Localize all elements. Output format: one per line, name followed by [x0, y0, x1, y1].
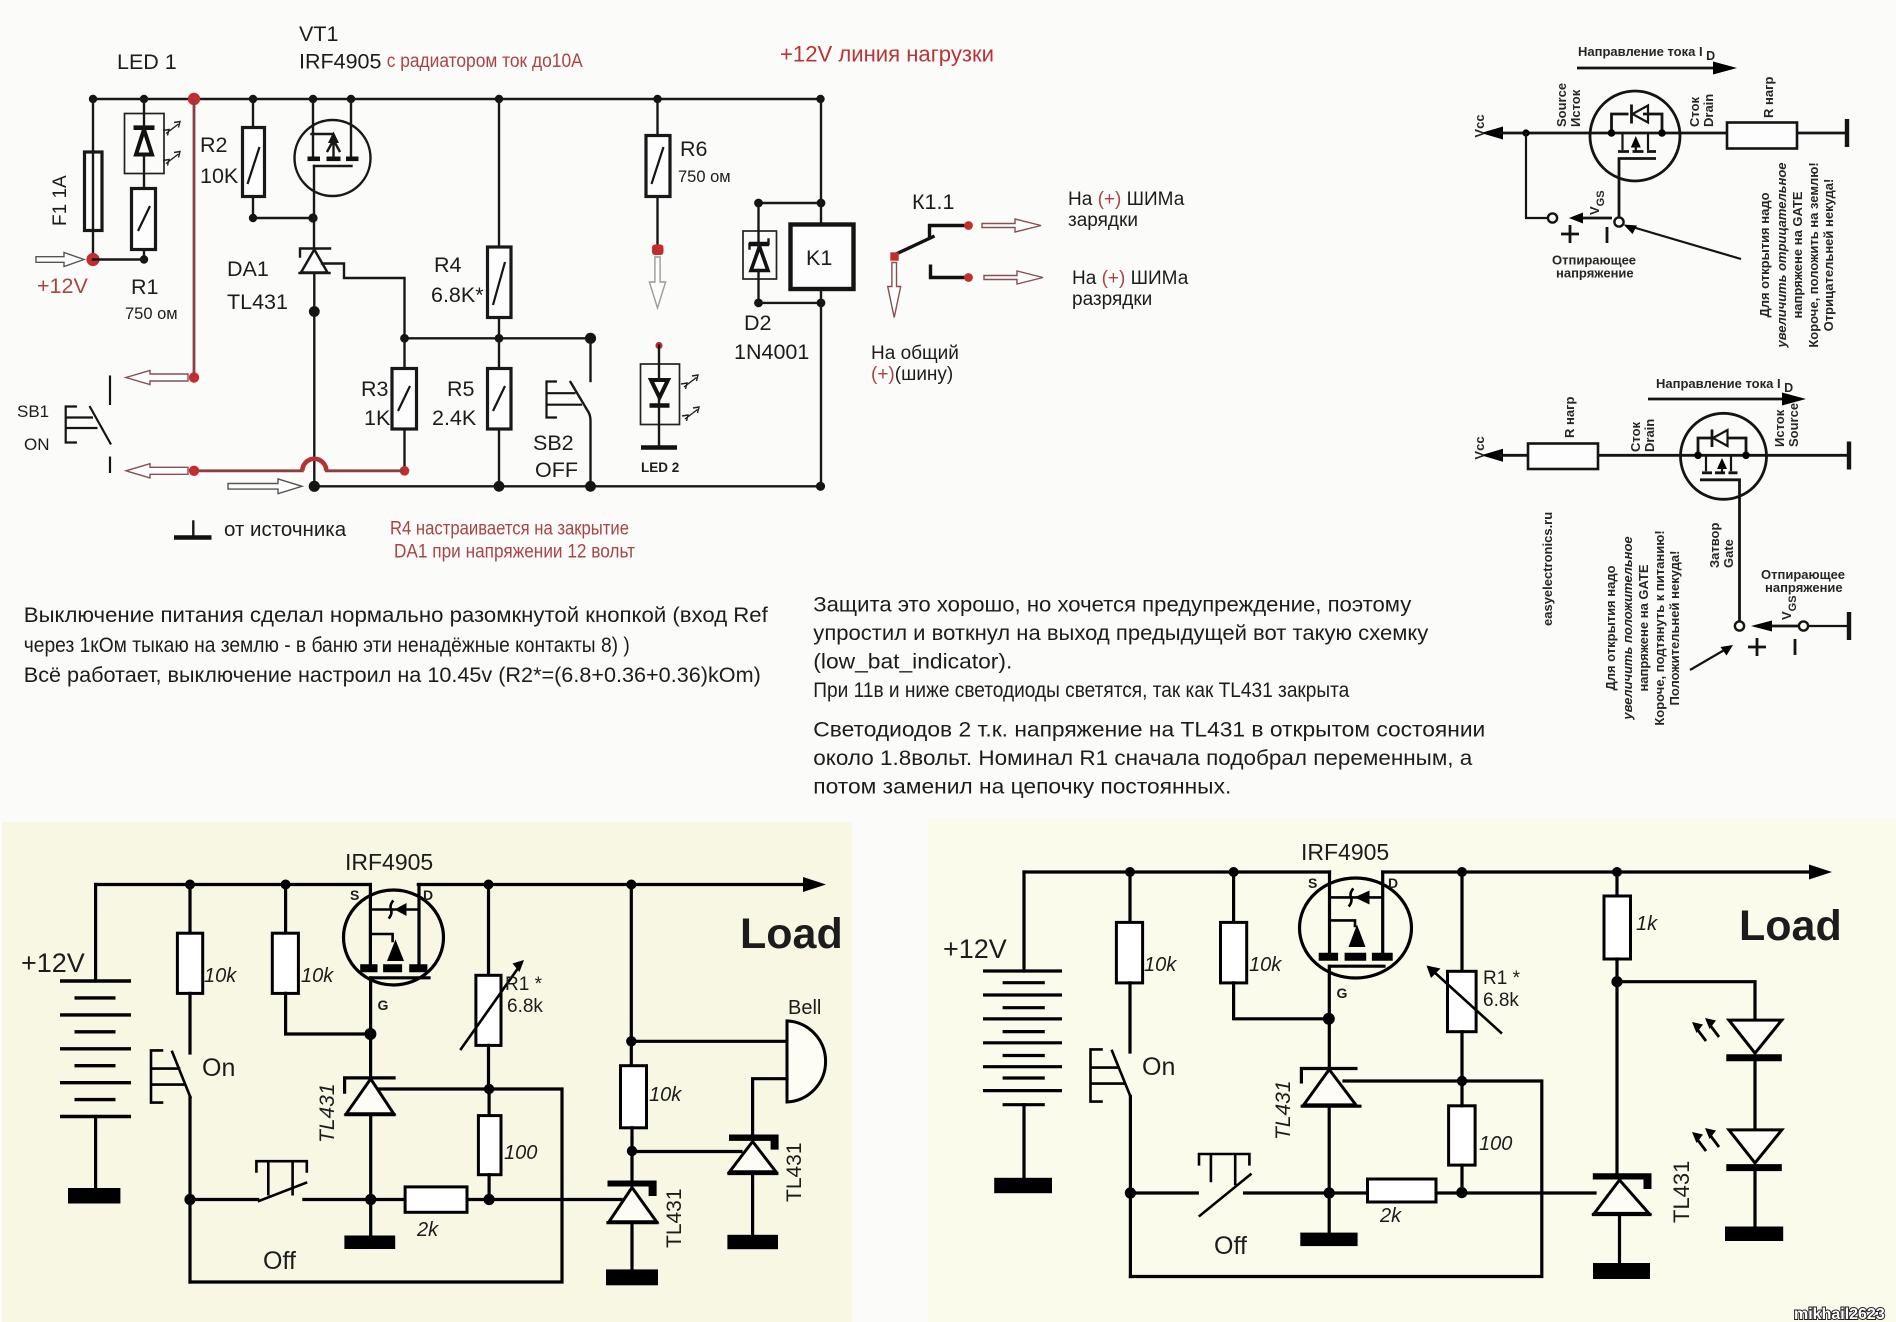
svg-text:+12V: +12V [21, 948, 85, 978]
svg-text:R1: R1 [131, 275, 158, 299]
MOSFET right gate bar [1331, 965, 1384, 968]
gate open node [1614, 217, 1623, 226]
switch On right [1112, 1051, 1130, 1096]
arrow Id direction second [1648, 398, 1785, 401]
SB2 actuator bracket [547, 382, 583, 418]
wire: VT1 gate down to DA1 [313, 166, 315, 249]
svg-text:SB2: SB2 [533, 431, 574, 455]
svg-text:On: On [1142, 1053, 1175, 1081]
wire: D2 top lead [757, 203, 759, 231]
svg-text:6.8K*: 6.8K* [431, 283, 484, 307]
wire: bottom row right segment [304, 1198, 621, 1201]
wire rail d2 left [1499, 454, 1528, 457]
Vcc arrowhead left d2 [1481, 449, 1503, 462]
arrow to SB1 bottom [126, 464, 188, 478]
svg-text:R4 настраивается на закрытие: R4 настраивается на закрытие [390, 519, 629, 540]
svg-text:1k: 1k [1636, 913, 1658, 935]
svg-text:100: 100 [504, 1142, 537, 1164]
resistor R nagr d2 [1528, 444, 1598, 470]
TL431 no1 anode [369, 1115, 372, 1236]
svg-text:10k: 10k [649, 1084, 682, 1106]
LED1 diode symbol [134, 125, 155, 130]
svg-text:R нагр: R нагр [1761, 77, 1776, 118]
red hop arc highlight [302, 459, 326, 471]
switch SB1 fixed contacts [109, 376, 111, 406]
svg-text:потом заменил на цепочку посто: потом заменил на цепочку постоянных. [813, 775, 1231, 799]
MOSFET right gate lead [1328, 966, 1331, 1019]
battery right ground pad [994, 1178, 1052, 1193]
arrow right lower [984, 271, 1043, 284]
Load arrowhead [803, 877, 826, 892]
svg-text:Drain: Drain [1701, 94, 1716, 127]
svg-text:DA1 при напряжении 12 вольт: DA1 при напряжении 12 вольт [394, 542, 635, 563]
wire: R4 top lead [498, 99, 500, 247]
wire On to row [188, 1097, 191, 1282]
svg-text:On: On [202, 1054, 235, 1082]
node: red dot under R3 [400, 466, 410, 476]
svg-text:Off: Off [263, 1247, 296, 1275]
battery left: lead [94, 885, 97, 982]
svg-text:2k: 2k [416, 1219, 439, 1241]
svg-text:Всё работает, выключение настр: Всё работает, выключение настроил на 10.… [24, 663, 761, 687]
wire rail d2 mid [1598, 454, 1849, 457]
arrow into common rail [228, 479, 302, 494]
wire: D2/K1 bottom link [759, 302, 822, 304]
svg-text:через 1кОм тыкаю на землю - в: через 1кОм тыкаю на землю - в баню эти н… [24, 633, 630, 657]
svg-text:Vcc: Vcc [1472, 436, 1487, 459]
svg-text:IRF4905: IRF4905 [299, 50, 382, 74]
svg-text:Load: Load [1739, 902, 1842, 950]
switch SB2 contact [571, 382, 591, 486]
svg-text:K1: K1 [806, 246, 832, 270]
svg-text:Отрицательней некуда!: Отрицательней некуда! [1821, 179, 1836, 332]
svg-text:Исток: Исток [1568, 89, 1583, 127]
svg-text:R3: R3 [361, 377, 389, 401]
VT1 contact feet [308, 157, 321, 162]
LED2 light arrows [681, 375, 698, 389]
svg-text:Bell: Bell [788, 997, 821, 1019]
resistor 100 [488, 1089, 491, 1116]
svg-text:TL431: TL431 [783, 1142, 806, 1202]
VT1 drain lead [350, 99, 352, 159]
VT left source lead [369, 885, 372, 966]
arrow down from K1.1 common [888, 263, 901, 318]
svg-text:напряжение: напряжение [1556, 266, 1634, 281]
LED2 ground bar [641, 445, 677, 450]
wire 10k2 to gate right [1234, 983, 1329, 1019]
node dots top rail right [1125, 867, 1135, 877]
svg-text:TL431: TL431 [1669, 1161, 1694, 1223]
svg-text:OFF: OFF [535, 458, 578, 482]
svg-text:R4: R4 [434, 253, 462, 277]
svg-text:TL431: TL431 [663, 1188, 686, 1248]
LED D2 arrows [1697, 1139, 1706, 1151]
node below 1k [1611, 976, 1622, 987]
svg-text:увеличить отрицательное: увеличить отрицательное [1774, 162, 1789, 348]
minus sign d2 [1794, 639, 1797, 655]
svg-text:R2: R2 [200, 133, 227, 157]
mosfet internals diagram1 [1623, 133, 1649, 150]
gate bar diagram1 [1619, 159, 1656, 219]
variable resistor R1* right [1460, 872, 1463, 971]
arrow right upper [982, 219, 1041, 232]
svg-text:Gate: Gate [1721, 539, 1736, 568]
MOSFET right drain lead [1381, 872, 1384, 954]
svg-text:6.8k: 6.8k [507, 996, 543, 1017]
node: D2 bottom [754, 299, 763, 308]
VT left body diode [370, 908, 419, 911]
svg-text:Короче, подтянуть к питанию!: Короче, подтянуть к питанию! [1652, 530, 1667, 725]
node: +12V input red dot [86, 253, 99, 266]
TL431 no2 right anode [1618, 1215, 1621, 1263]
resistor 10k no1 [188, 885, 191, 934]
svg-text:1K: 1K [364, 406, 391, 430]
plus sign diagram1 [1561, 225, 1579, 243]
K1.1 common red pad [890, 252, 898, 260]
node gate right [1323, 1013, 1335, 1025]
wire to ground diagram1 [1797, 132, 1847, 135]
svg-text:На общий: На общий [871, 343, 959, 364]
svg-text:зарядки: зарядки [1068, 210, 1138, 231]
TL431 no1 ref loop [190, 1089, 562, 1282]
resistor R6 [646, 136, 670, 197]
K1.1 lower contact [931, 265, 969, 278]
TL431 no1 right triangle [1304, 1070, 1356, 1105]
svg-text:S: S [350, 887, 359, 903]
LED1 light arrows [163, 122, 180, 136]
resistor 1k [1615, 872, 1618, 896]
open node right d2 [1799, 621, 1808, 630]
svg-text:R нагр: R нагр [1562, 397, 1577, 438]
gate bar d2 [1700, 480, 1740, 622]
wire: R3-R4-SB2 row [405, 337, 591, 339]
node dots top rail [185, 880, 195, 890]
annotation arrow d1 [1629, 226, 1741, 259]
svg-text:G: G [1337, 985, 1348, 1001]
K1.1 upper contact [930, 226, 968, 239]
ground symbol ot istochnika [192, 522, 194, 537]
svg-text:VT1: VT1 [299, 22, 338, 46]
wire: LED2 top lead [658, 346, 660, 365]
node: small red dot above LED2 [655, 342, 662, 349]
wire: LED1 top lead [143, 99, 145, 114]
wire: top rail right schematic [1024, 870, 1330, 873]
TL431 no3 triangle [730, 1142, 776, 1172]
Load arrowhead right [1809, 865, 1832, 880]
cream background left schematic [2, 822, 852, 1322]
svg-text:TL431: TL431 [316, 1083, 339, 1143]
svg-text:1N4001: 1N4001 [734, 340, 809, 364]
resistor 2k [405, 1187, 467, 1212]
minus sign diagram1 [1606, 227, 1609, 243]
wire: common bottom rail [314, 485, 820, 487]
LED1 box [125, 114, 165, 174]
DA1 anode bar [300, 272, 330, 274]
TL431 no1 right bar [1301, 1069, 1356, 1082]
svg-text:Положительней некуда!: Положительней некуда! [1667, 551, 1682, 706]
wire to LEDs [1617, 982, 1755, 1020]
TL431 no2 triangle [609, 1188, 657, 1222]
fuse F1 1A [85, 152, 103, 231]
svg-text:с радиатором ток до10А: с радиатором ток до10А [387, 51, 583, 72]
svg-text:упростил и воткнул на выход пр: упростил и воткнул на выход предыдущей в… [813, 621, 1428, 645]
LED D2 right [1729, 1130, 1782, 1163]
svg-text:100: 100 [1479, 1133, 1512, 1155]
node On row [184, 1194, 195, 1205]
VT left gate bar [372, 976, 429, 979]
node dot Vgs tap [1522, 129, 1529, 136]
resistor 2k right [1368, 1179, 1437, 1202]
svg-text:IRF4905: IRF4905 [1301, 839, 1389, 865]
wire: top +12V rail [93, 98, 821, 100]
svg-text:2.4K: 2.4K [432, 406, 477, 430]
svg-text:D: D [1388, 875, 1398, 891]
TL431 no1 right ground pad [1300, 1233, 1357, 1247]
resistor 10k no1 right [1128, 872, 1131, 922]
resistor 10k no2 [284, 885, 287, 934]
battery right bottom lead [1022, 1105, 1025, 1178]
node dots on top rail [89, 95, 97, 103]
transistor VT1 circle [295, 120, 371, 196]
VT left gate lead [369, 978, 372, 1034]
battery plates [60, 981, 131, 1117]
svg-text:TL431: TL431 [1272, 1080, 1295, 1140]
D2 zener symbol [750, 240, 769, 249]
svg-text:При 11в и ниже светодиоды свет: При 11в и ниже светодиоды светятся, так … [813, 678, 1349, 702]
Bell shape [787, 1021, 826, 1102]
svg-text:D2: D2 [744, 311, 771, 335]
ground bar d2 right [1847, 442, 1851, 470]
svg-text:6.8k: 6.8k [1483, 990, 1519, 1011]
DA1 TL431 cathode bar [300, 249, 330, 257]
TL431 no2 right triangle [1594, 1180, 1649, 1213]
DA1 ref wire to R3 node [322, 264, 405, 339]
svg-text:Сток: Сток [1687, 96, 1702, 127]
arrow: +12V input [36, 253, 84, 267]
ground bar diagram1 [1845, 119, 1849, 147]
svg-text:Исток: Исток [1772, 409, 1787, 447]
Bell bottom wire [753, 1079, 787, 1135]
svg-text:ON: ON [24, 435, 50, 454]
svg-text:+12V линия нагрузки: +12V линия нагрузки [780, 42, 994, 67]
relay K1 box [791, 225, 854, 290]
wire: D2/K1 top link [759, 202, 822, 204]
VT1 channel line [312, 133, 333, 135]
MOSFET right body diode [1330, 896, 1383, 899]
svg-text:R5: R5 [447, 377, 475, 401]
node ref junction [484, 1084, 494, 1094]
wire: R1 bottom lead [143, 250, 145, 260]
mosfet internals d2 [1706, 455, 1731, 471]
wire: R4 bottom lead [498, 318, 500, 339]
wire: R3 top lead [403, 338, 405, 368]
wire: F1 bottom lead [92, 231, 94, 257]
svg-text:Затвор: Затвор [1707, 522, 1722, 568]
svg-text:Source: Source [1786, 403, 1801, 447]
svg-text:10K: 10K [200, 164, 239, 188]
MOSFET right channel arrow [1330, 920, 1356, 926]
svg-text:10k: 10k [1249, 954, 1282, 976]
wire: R5 bottom lead [498, 429, 500, 486]
resistor 100 right [1449, 1106, 1476, 1165]
svg-text:Drain: Drain [1642, 419, 1657, 452]
TL431 no1 bar [345, 1078, 394, 1092]
red wire: R2 sense line down [193, 99, 196, 378]
svg-text:mikhail2623: mikhail2623 [1794, 1306, 1885, 1322]
svg-text:2k: 2k [1379, 1205, 1402, 1227]
resistor R nagr diagram1 [1727, 123, 1797, 149]
wire On to row right [1129, 1096, 1132, 1276]
svg-text:LED 2: LED 2 [641, 460, 679, 475]
SB1 actuator bracket [66, 407, 98, 443]
LED D1 right [1729, 1020, 1782, 1053]
wire: bottom link F1-R1 [93, 258, 144, 260]
plus sign d2 [1748, 638, 1766, 656]
svg-text:напряжене на GATE: напряжене на GATE [1790, 191, 1805, 318]
svg-text:Для открытия надо: Для открытия надо [1603, 565, 1618, 690]
svg-text:разрядки: разрядки [1072, 289, 1152, 310]
Vgs wire and node left [1526, 133, 1548, 218]
node On row right [1125, 1187, 1136, 1198]
svg-text:LED 1: LED 1 [117, 50, 177, 74]
MOSFET circle diagram1 [1590, 91, 1680, 181]
svg-text:около 1.8вольт. Номинал R1 сна: около 1.8вольт. Номинал R1 сначала подоб… [813, 746, 1472, 770]
TL431 no1 right cathode lead [1328, 1019, 1331, 1069]
diode triangle diagram1 [1633, 106, 1649, 123]
node ref junction right [1457, 1076, 1467, 1086]
svg-text:TL431: TL431 [227, 290, 288, 314]
MOSFET right source lead [1328, 872, 1331, 954]
wire: R6 top lead [656, 99, 658, 136]
svg-text:750 ом: 750 ом [678, 168, 731, 186]
wire: R3 bottom lead [403, 429, 405, 471]
MOSFET VT left circle [344, 890, 444, 985]
svg-text:750 ом: 750 ом [125, 305, 178, 323]
TL431 no1 triangle [346, 1079, 393, 1114]
wire: main rail diagram1 [1499, 132, 1727, 135]
MOSFET right contact bars [1319, 953, 1393, 961]
ground bar d2 gate side [1847, 612, 1851, 640]
battery ground pad [68, 1188, 120, 1204]
red wire: SB1 return with hop [194, 459, 405, 471]
svg-text:На (+) ШИМа: На (+) ШИМа [1068, 189, 1185, 210]
svg-text:На (+) ШИМа: На (+) ШИМа [1072, 268, 1189, 289]
VT1 source lead [312, 99, 314, 159]
svg-text:напряжение: напряжение [1765, 580, 1843, 595]
switch Off bracket right [1199, 1154, 1249, 1184]
svg-text:увеличить положительное: увеличить положительное [1620, 536, 1635, 720]
wire circle to ground d2 [1808, 625, 1847, 627]
body diode loop diagram1 [1612, 114, 1663, 133]
gate open node d2 [1735, 621, 1744, 630]
svg-text:Короче, положить на землю!: Короче, положить на землю! [1806, 162, 1821, 347]
resistor R5 [488, 369, 512, 430]
wire: R6 bottom lead [656, 197, 658, 246]
svg-text:easyelectronics.ru: easyelectronics.ru [1540, 512, 1555, 626]
svg-text:10k: 10k [204, 965, 237, 987]
arrow down from R6 [649, 257, 665, 308]
svg-text:10k: 10k [1144, 954, 1177, 976]
wire 10k2 to gate [286, 993, 371, 1034]
svg-text:(+)(шину): (+)(шину) [871, 364, 953, 385]
wire: top rail left schematic [96, 883, 371, 886]
svg-text:R1 *: R1 * [1483, 968, 1521, 989]
resistor R3 [392, 369, 417, 430]
K1.1 moving contact [895, 236, 935, 255]
switch On [172, 1052, 190, 1097]
svg-text:Защита это хорошо, но хочется: Защита это хорошо, но хочется предупрежд… [813, 593, 1411, 617]
cream background right schematic [928, 818, 1896, 1322]
switch Off bracket [256, 1161, 306, 1194]
TL431 no2 anode [630, 1223, 633, 1269]
TL431 no1 ground pad [344, 1236, 395, 1250]
wire: SB2 top lead [589, 338, 591, 381]
node: red dot left [189, 466, 199, 476]
wire: K1 coil top lead [820, 99, 822, 225]
LED2 diode symbol [651, 380, 668, 398]
svg-text:F1 1A: F1 1A [50, 175, 71, 226]
wire: bottom row left segment [190, 1198, 258, 1201]
SB1 moving contact [90, 406, 112, 445]
TL431 no3 ground pad [727, 1235, 778, 1249]
battery right lead [1022, 872, 1025, 971]
wire 10k3 to TL431 no2 [630, 1128, 633, 1181]
TL431 no1 cathode lead [369, 1034, 372, 1078]
arrow Id direction top [1577, 67, 1717, 70]
TL431 no3 bar [729, 1135, 779, 1150]
svg-text:от источника: от источника [224, 518, 347, 541]
switch Off contact [259, 1183, 306, 1201]
svg-text:Для открытия надо: Для открытия надо [1757, 192, 1772, 317]
wire: F1 top lead [92, 99, 94, 152]
svg-text:IRF4905: IRF4905 [345, 849, 433, 875]
svg-text:Load: Load [740, 910, 843, 958]
DA1 triangle [301, 250, 328, 273]
svg-text:R1 *: R1 * [505, 974, 543, 995]
svg-text:+12V: +12V [37, 274, 88, 298]
LED D1 arrows [1697, 1029, 1706, 1041]
wire: K1 coil bottom lead [820, 289, 822, 486]
body diode loop d2 [1698, 438, 1746, 455]
node gate [364, 1028, 376, 1040]
svg-text:Выключение питания сделал норм: Выключение питания сделал нормально разо… [24, 603, 768, 627]
wire to TL431 no3 [632, 1150, 741, 1153]
MOSFET circle d2 [1681, 413, 1767, 499]
VT left contact bars [360, 964, 427, 972]
annotation arrow d2 [1690, 649, 1726, 670]
svg-text:+12V: +12V [943, 934, 1007, 964]
wire: R5 top lead [498, 338, 500, 368]
TL431 no1 right anode [1328, 1106, 1331, 1232]
Vgs arrow diagram1 [1581, 217, 1612, 220]
svg-text:SB1: SB1 [17, 402, 49, 421]
TL431 no3 anode [751, 1174, 754, 1235]
svg-text:напряжене на GATE: напряжене на GATE [1636, 564, 1651, 691]
svg-text:Сток: Сток [1628, 421, 1643, 452]
wire: DA1 anode down [313, 273, 315, 486]
TL431 no2 bar [608, 1181, 657, 1197]
svg-text:Source: Source [1554, 83, 1569, 127]
wire: bottom row right schematic segments [1130, 1191, 1197, 1194]
svg-text:Vcc: Vcc [1472, 114, 1487, 137]
resistor R2 [243, 128, 265, 197]
svg-text:Светодиодов 2 т.к. напряжение: Светодиодов 2 т.к. напряжение на TL431 в… [813, 718, 1485, 742]
node: red dot SB1 top [189, 372, 199, 382]
resistor 10k no2 right [1232, 872, 1235, 922]
wire: R2 top lead [252, 99, 254, 128]
battery bottom lead [94, 1117, 97, 1189]
node: red square pad [652, 245, 664, 256]
